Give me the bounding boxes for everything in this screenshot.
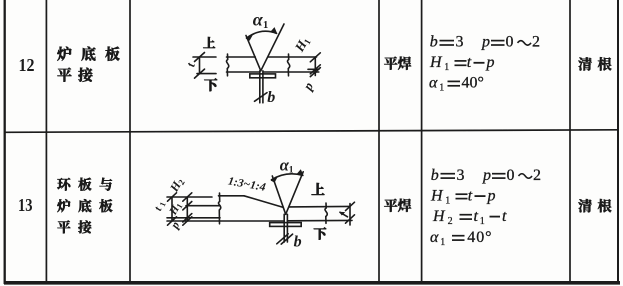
r12 V-groove left face <box>246 36 261 71</box>
r12 p dim bottom extension <box>317 71 319 73</box>
svg-text:p: p <box>299 79 316 93</box>
r13 arc arrowhead right <box>296 169 303 176</box>
svg-text:2: 2 <box>532 34 540 51</box>
table right border <box>617 0 619 284</box>
r13 t slash top <box>346 202 355 210</box>
r13 t1 dim vertical <box>171 197 173 221</box>
r13 gap slash 2 <box>281 234 292 244</box>
svg-text:3: 3 <box>456 34 464 51</box>
svg-text:H: H <box>432 208 446 225</box>
r13 label 下 <box>314 227 326 239</box>
r12 plate bottom surface right <box>263 71 316 73</box>
r12 plate top surface right <box>268 56 316 58</box>
svg-text:α: α <box>429 75 438 92</box>
r13 bottom surface line right <box>287 219 352 221</box>
table column line 4 <box>421 0 423 284</box>
svg-text:b: b <box>430 34 438 51</box>
r12 plate top surface left <box>227 56 256 58</box>
svg-text:1: 1 <box>480 216 485 227</box>
svg-text:p: p <box>486 54 495 71</box>
r13 bottom surface line left <box>167 220 284 222</box>
svg-text:1: 1 <box>263 20 268 31</box>
svg-text:0: 0 <box>506 34 514 51</box>
r13 V-groove right face <box>286 172 304 215</box>
table bottom border <box>4 281 620 285</box>
svg-text:1: 1 <box>440 237 445 248</box>
r13 gap slash 1 <box>277 234 288 244</box>
r13 left break mark <box>218 193 220 224</box>
svg-text:t: t <box>468 187 473 204</box>
r12 t-dim bottom extension line <box>197 73 216 75</box>
r13 rootface extension line <box>167 217 220 219</box>
svg-text:40°: 40° <box>462 75 484 92</box>
svg-text:1: 1 <box>439 83 444 94</box>
svg-text:2: 2 <box>533 167 541 184</box>
r12 t-dim vertical line <box>199 57 201 74</box>
svg-text:p: p <box>487 187 496 204</box>
r12 H1 dim vertical line <box>314 57 316 69</box>
svg-text:1: 1 <box>444 62 449 73</box>
svg-text:12: 12 <box>19 55 35 75</box>
r12 label 下 <box>204 78 217 91</box>
r12 backing strip <box>250 74 276 78</box>
r12 root gap line right <box>262 71 264 103</box>
svg-text:b: b <box>294 234 302 251</box>
r12 V-groove right face <box>261 24 284 71</box>
row 13 weld method 平焊 <box>384 199 397 212</box>
table column line 2 <box>129 0 131 284</box>
r13 stack slash bottom <box>183 217 192 225</box>
row 13 name 环板与 <box>57 178 70 191</box>
r12 arc arrowhead left <box>246 35 253 41</box>
r12 angle arc <box>247 31 277 38</box>
r12 t-dim top extension line <box>193 56 216 58</box>
svg-text:p: p <box>482 167 491 184</box>
r12 root gap line left <box>259 71 261 103</box>
r12 H1 slash top <box>310 53 320 62</box>
r13 H1 label <box>167 200 185 218</box>
r12 p dim top extension <box>308 68 319 70</box>
r13 stack dim vertical <box>186 197 188 221</box>
row 13 name 平接 <box>57 220 70 233</box>
svg-text:13: 13 <box>18 195 33 215</box>
r12 t-dim slash top <box>195 53 205 62</box>
table column line 1 <box>45 0 47 284</box>
svg-text:b: b <box>267 89 275 106</box>
table left border <box>4 0 6 284</box>
svg-text:H: H <box>429 54 443 71</box>
r13 t1 label <box>152 199 168 213</box>
r12 right break mark <box>287 54 289 76</box>
r12 t-dim slash bottom <box>195 69 205 78</box>
r13 ring top extension line <box>167 196 212 198</box>
r13 right break mark <box>325 203 327 223</box>
svg-text:H: H <box>430 187 444 204</box>
r12 p slash top <box>310 65 320 74</box>
r12 label 上 <box>203 37 215 48</box>
r13 ring plate top surface <box>219 195 245 197</box>
row 12 name 炉底板 <box>57 47 71 61</box>
r12 plate bottom surface left <box>227 71 260 73</box>
row 12 weld method 平焊 <box>384 57 397 70</box>
r13 t1 slash bottom <box>168 217 177 225</box>
svg-text:t: t <box>183 61 198 68</box>
r12 left break mark <box>226 54 228 76</box>
r13 backing strip <box>270 223 302 227</box>
row 13 backgouge 清根 <box>578 199 591 212</box>
svg-text:1:3~1:4: 1:3~1:4 <box>227 175 267 193</box>
svg-text:t: t <box>474 208 479 225</box>
svg-text:1: 1 <box>289 165 294 175</box>
svg-text:0: 0 <box>507 167 515 184</box>
svg-text:p: p <box>481 34 490 51</box>
r13 label 上 <box>312 183 325 195</box>
r13 stack slash top <box>183 193 192 201</box>
r13 t1 slash top <box>168 193 177 201</box>
row 13 name 炉底板 <box>57 199 70 212</box>
svg-text:1: 1 <box>158 201 168 208</box>
r13 taper line <box>244 196 283 208</box>
r13 t arrow mark <box>340 212 348 217</box>
svg-text:α: α <box>430 229 439 246</box>
r13 right plate top surface <box>289 205 349 208</box>
svg-text:2: 2 <box>448 216 453 227</box>
svg-text:3: 3 <box>457 167 465 184</box>
r12 p slash bottom <box>310 68 320 77</box>
r12 arc arrowhead right <box>270 27 277 34</box>
table column line 5 <box>569 0 571 284</box>
r13 V-groove left face <box>272 176 285 214</box>
r13 stack slash mid1 <box>183 202 192 210</box>
r13 root gap line left <box>283 214 285 242</box>
svg-text:t: t <box>502 208 507 225</box>
r12 H1 label <box>291 34 313 56</box>
r13 angle arc <box>271 174 302 180</box>
row 12 backgouge 清根 <box>578 57 591 70</box>
r13 root gap line right <box>286 214 288 242</box>
r12 p dim vertical <box>314 69 316 75</box>
svg-text:t: t <box>467 54 472 71</box>
table column line 3 <box>378 0 380 284</box>
r13 stack slash mid2 <box>183 214 192 222</box>
svg-text:40°: 40° <box>467 229 492 246</box>
r13 arc arrowhead left <box>271 177 278 183</box>
table row separator <box>4 130 618 133</box>
r13 t dim vertical right <box>349 204 351 226</box>
r13 H2 label <box>166 175 186 195</box>
svg-text:1: 1 <box>445 195 450 206</box>
r13 plate-level extension line <box>186 205 220 207</box>
r13 t slash bottom <box>346 215 355 223</box>
r12 gap slash <box>255 93 268 102</box>
row 12 name 平接 <box>57 68 71 82</box>
svg-text:b: b <box>431 167 439 184</box>
